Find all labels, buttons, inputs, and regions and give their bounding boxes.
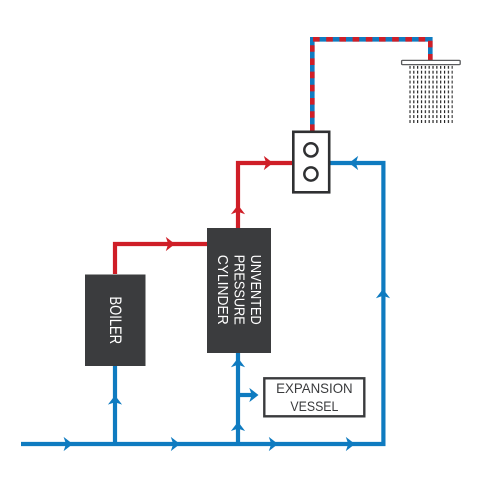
svg-text:VESSEL: VESSEL — [290, 399, 338, 414]
svg-text:CYLINDER: CYLINDER — [214, 255, 230, 325]
svg-text:EXPANSION: EXPANSION — [276, 381, 353, 396]
svg-text:PRESSURE: PRESSURE — [231, 255, 247, 325]
svg-text:UNVENTED: UNVENTED — [247, 255, 263, 325]
svg-text:BOILER: BOILER — [106, 297, 124, 345]
